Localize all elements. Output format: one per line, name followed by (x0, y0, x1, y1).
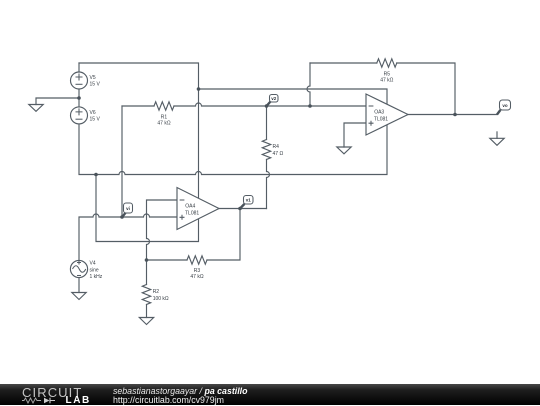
svg-text:100 kΩ: 100 kΩ (153, 296, 169, 302)
svg-text:47 kΩ: 47 kΩ (157, 120, 170, 126)
svg-text:47 Ω: 47 Ω (273, 151, 284, 157)
svg-text:v1: v1 (246, 198, 252, 203)
svg-text:V5: V5 (90, 75, 96, 81)
svg-text:15 V: 15 V (90, 82, 101, 88)
svg-text:47 kΩ: 47 kΩ (190, 274, 203, 280)
svg-text:R2: R2 (153, 289, 160, 295)
svg-text:TL081: TL081 (185, 210, 199, 216)
svg-text:47 kΩ: 47 kΩ (380, 77, 393, 83)
svg-text:sine: sine (90, 268, 99, 274)
svg-text:V6: V6 (90, 110, 96, 116)
svg-text:R4: R4 (273, 144, 280, 150)
svg-text:1 kHz: 1 kHz (90, 274, 103, 280)
svg-text:R3: R3 (194, 268, 201, 274)
svg-text:OA3: OA3 (374, 109, 384, 115)
svg-text:OA4: OA4 (185, 203, 195, 209)
svg-text:vi: vi (126, 206, 130, 211)
svg-text:v2: v2 (271, 96, 277, 101)
svg-text:15 V: 15 V (90, 116, 101, 122)
svg-text:vo: vo (502, 103, 508, 108)
svg-text:V4: V4 (90, 261, 96, 267)
svg-text:TL081: TL081 (374, 116, 388, 122)
